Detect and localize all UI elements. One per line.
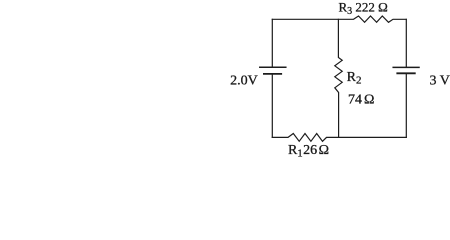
svg-text:R126Ω: R126Ω [288,143,329,159]
svg-text:R3 222 Ω: R3 222 Ω [339,0,388,17]
svg-text:74Ω: 74Ω [348,92,374,107]
svg-text:2.0V: 2.0V [230,74,258,89]
svg-text:3 V: 3 V [430,74,450,89]
svg-text:R2: R2 [347,70,362,87]
